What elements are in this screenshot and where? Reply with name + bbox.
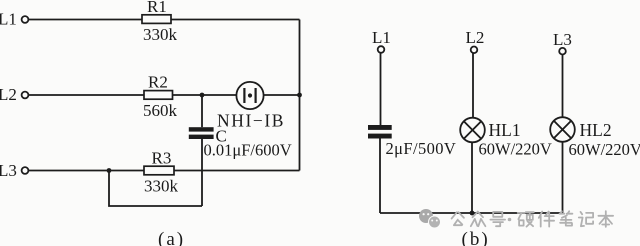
watermark char jian [539,212,554,227]
svg-text:60W/220V: 60W/220V [479,140,552,159]
wire L3 to R3 [29,170,144,172]
wire neon to rail [264,94,300,96]
svg-text:L2: L2 [466,28,485,47]
svg-text:330k: 330k [143,25,178,44]
svg-text:R2: R2 [148,72,168,91]
lamp HL1 cross [464,121,481,138]
terminal L2 [22,92,29,99]
watermark logo wechat bubbles [419,209,441,228]
capacitor Cb plate top [368,125,392,130]
watermark char ji [579,212,593,226]
svg-text:L1: L1 [372,28,391,47]
resistor R3 [144,166,174,175]
watermark char ying [518,212,534,226]
terminal L1 [22,16,29,23]
svg-text:R1: R1 [147,0,167,16]
resistor R2 [144,91,173,100]
watermark char hao [490,212,505,226]
svg-text:(b): (b) [462,229,490,246]
wire right rail [299,20,301,171]
watermark char bi [560,211,573,225]
wire L2 down to lamp [472,53,474,118]
capacitor C lead top [201,95,203,127]
lamp HL1 circle [460,118,485,143]
capacitor C lead bottom [201,139,203,206]
watermark char zhong [471,212,486,227]
lamp HL2 cross [554,121,571,138]
wire R1 to rail [171,19,300,21]
junction node HL1/bottom [470,211,475,216]
capacitor C plate top [189,127,214,131]
svg-text:330k: 330k [144,177,179,196]
watermark middle dot [508,218,512,222]
wire lamp HL1 to bottom [471,142,473,213]
neon electrode right [255,88,257,103]
svg-text:HL1: HL1 [489,120,521,140]
capacitor C plate bottom [189,135,214,139]
neon lamp U1 circle [236,82,263,109]
svg-text:NHI−IB: NHI−IB [217,111,285,131]
wire bottom U route [109,171,202,207]
lamp HL2 circle [550,117,575,142]
svg-text:2μF/500V: 2μF/500V [386,139,457,158]
resistor R1 [142,15,171,24]
terminal L3 b [559,48,566,55]
watermark char gong [452,212,464,225]
svg-text:(a): (a) [158,229,185,246]
terminal L3 [22,167,29,174]
wire lamp HL2 to bottom [562,142,564,213]
capacitor Cb plate bottom [368,134,392,139]
wire capacitor to bottom [379,138,381,213]
svg-text:L1: L1 [0,10,17,29]
neon electrode left [243,88,245,103]
terminal L1 b [378,46,385,53]
wire L1 to R1 [29,19,142,21]
svg-text:R3: R3 [152,149,172,168]
junction node L3 [107,168,112,173]
svg-text:HL2: HL2 [580,120,612,140]
wire R2 to neon [173,94,237,96]
wire L2 to R2 [29,94,144,96]
watermark char ben [598,211,613,227]
wire L1 down to capacitor [380,53,382,125]
svg-text:560k: 560k [143,101,178,120]
junction node neon/rail [297,93,302,98]
neon center dot [248,93,252,97]
svg-text:L3: L3 [553,30,572,49]
svg-text:60W/220V: 60W/220V [569,140,640,159]
terminal L2 b [471,47,478,54]
wire L3 down to lamp [562,55,564,118]
watermark text (hanzi strokes) [452,211,613,227]
svg-text:L3: L3 [0,161,17,180]
svg-text:L2: L2 [0,85,17,104]
junction node R2/neon/C [200,93,205,98]
wire R3 to rail [174,170,300,172]
wire bottom bus [380,212,563,214]
svg-text:0.01μF/600V: 0.01μF/600V [204,141,292,160]
